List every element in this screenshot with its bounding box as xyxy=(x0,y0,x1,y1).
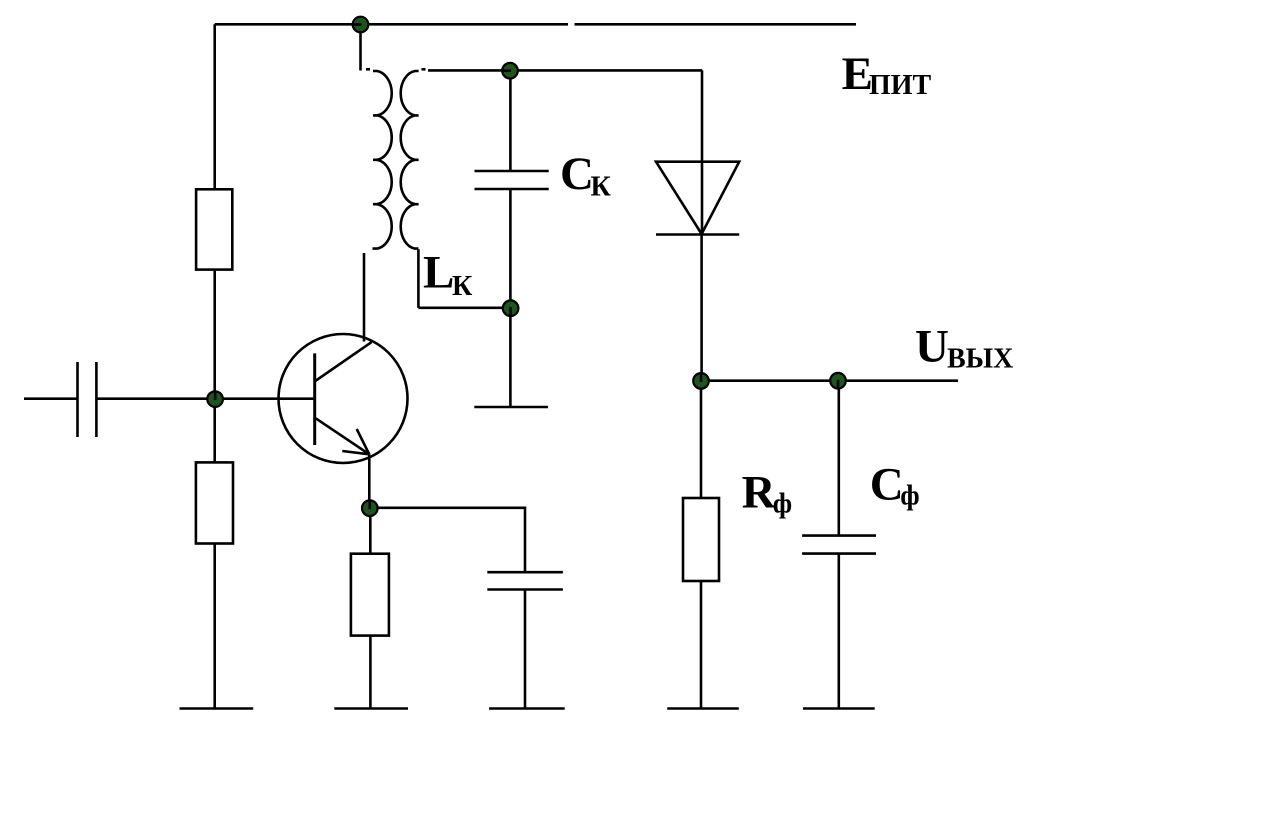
wire R2 to ground xyxy=(213,544,216,709)
ground (bypass branch) xyxy=(489,707,565,710)
wire stub into node B (base node) xyxy=(214,391,217,400)
resistor R1 (upper bias) xyxy=(196,189,232,269)
label Lk xyxy=(423,247,473,302)
resistor R2 (lower bias) xyxy=(196,462,233,543)
wire R3 to ground xyxy=(369,636,372,709)
node C (tank top) xyxy=(502,63,518,79)
node F (filter node) xyxy=(830,373,846,389)
resistor Rf xyxy=(683,498,719,581)
wire R1 to base node xyxy=(213,270,216,399)
wire coil bottom down xyxy=(417,249,420,308)
resistor R3 (emitter) xyxy=(351,554,389,636)
wire stub into node C (tank top) xyxy=(502,69,511,72)
wire diode top xyxy=(701,70,704,234)
wire emitter node to bypass cap xyxy=(370,508,525,572)
ground (R3 branch) xyxy=(334,707,408,710)
diode VD1 xyxy=(656,162,739,235)
wire top rail right segment xyxy=(575,23,857,26)
svg-text:ф: ф xyxy=(900,481,919,512)
label Ck xyxy=(560,148,612,202)
svg-text:К: К xyxy=(452,271,473,302)
wire Ck bottom through node to ground xyxy=(509,189,512,407)
wire coil bottom to tank node xyxy=(418,306,510,309)
wire emitter node to R3 xyxy=(369,508,372,554)
wire node A down to coil top xyxy=(359,25,362,71)
ground (Cf branch) xyxy=(803,707,875,710)
wire left rail down to R1 xyxy=(213,24,216,189)
wire base node to transistor base xyxy=(215,397,315,400)
node A (top rail junction) xyxy=(353,17,369,33)
wire Cf top xyxy=(837,381,840,536)
svg-text:L: L xyxy=(423,247,454,299)
wire top rail left segment xyxy=(215,23,568,26)
capacitor C1 (input coupling) xyxy=(78,362,97,437)
node G (emitter) xyxy=(362,500,378,516)
svg-text:R: R xyxy=(742,467,777,519)
wire stub into node A (top rail junction) xyxy=(353,23,362,26)
wire Rf bottom xyxy=(700,581,703,709)
wire stub into node D (tank bottom) xyxy=(509,307,512,316)
wire input left xyxy=(24,397,78,400)
wire input to base node xyxy=(96,397,215,400)
wire stub into node F (filter node) xyxy=(837,380,840,389)
ground (Ck branch) xyxy=(474,406,548,409)
node B (base node) xyxy=(207,391,223,407)
svg-text:C: C xyxy=(870,459,904,511)
wire Ck top xyxy=(509,71,512,171)
label Epit xyxy=(842,48,932,101)
svg-text:ПИТ: ПИТ xyxy=(869,70,932,101)
label Cf xyxy=(870,459,920,512)
ground (R2 branch) xyxy=(180,707,254,710)
wire diode to output node xyxy=(700,235,703,382)
capacitor C2 (emitter bypass) xyxy=(487,572,563,589)
ground (Rf branch) xyxy=(667,707,739,710)
wire coil top dash right xyxy=(422,68,426,71)
label Rf xyxy=(742,467,793,520)
svg-text:U: U xyxy=(915,320,949,372)
svg-text:C: C xyxy=(560,148,594,200)
capacitor Cf xyxy=(802,536,876,554)
wire emitter down xyxy=(368,454,371,508)
wire output rail xyxy=(701,379,958,382)
wire bypass cap to ground xyxy=(524,590,527,709)
inductor Lk coil right column xyxy=(401,71,419,249)
svg-text:ф: ф xyxy=(773,489,792,520)
svg-text:К: К xyxy=(591,171,612,202)
wire stub into node E (detector output) xyxy=(700,373,703,382)
capacitor Ck (tank) xyxy=(475,171,549,189)
node D (tank bottom) xyxy=(503,300,519,316)
wire coil top dash left xyxy=(366,68,370,71)
wire Rf top xyxy=(700,381,703,498)
node E (detector output) xyxy=(693,373,709,389)
svg-text:ВЫХ: ВЫХ xyxy=(947,343,1013,374)
wire coil top to diode corner xyxy=(428,69,702,72)
wire Cf bottom xyxy=(837,554,840,709)
wire collector up to coil xyxy=(363,253,366,342)
transistor VT1 xyxy=(279,334,408,463)
label Uvyh xyxy=(915,320,1013,374)
wire base node down to R2 xyxy=(213,399,216,462)
wire stub into node G (emitter) xyxy=(368,500,371,509)
inductor Lk coil left column xyxy=(373,71,392,249)
